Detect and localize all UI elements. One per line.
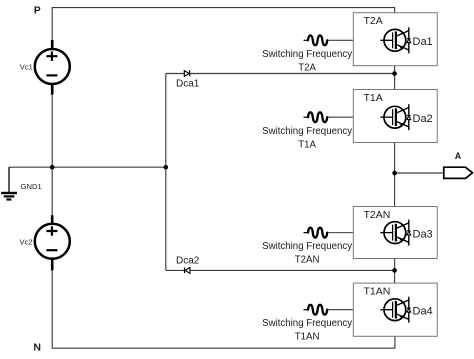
wire bottom rail N <box>52 270 395 348</box>
wire clamp vertical <box>165 74 167 271</box>
wire gate T1AN <box>327 309 353 311</box>
wire gate T1A <box>327 116 353 118</box>
svg-text:Da2: Da2 <box>413 113 433 125</box>
svg-text:Switching Frequency: Switching Frequency <box>262 49 352 60</box>
block outline T1A <box>353 90 437 143</box>
transistor T1A igbt <box>380 104 409 130</box>
diode Da2 <box>407 116 411 120</box>
voltage source Vc1 <box>35 40 70 95</box>
wire Dca1 branch <box>166 73 395 75</box>
svg-text:Switching Frequency: Switching Frequency <box>262 126 352 137</box>
transistor T2A igbt <box>380 27 409 53</box>
svg-text:Switching Frequency: Switching Frequency <box>262 318 352 329</box>
diode Da1 <box>407 39 411 43</box>
junction output A dot <box>392 171 397 176</box>
svg-text:T2AN: T2AN <box>295 255 320 266</box>
gate signal squiggle T1AN <box>304 305 328 315</box>
wire T1A to T2AN <box>394 143 396 207</box>
wire T2AN to T1AN <box>394 259 396 284</box>
transistor T1AN igbt <box>380 297 409 323</box>
svg-text:GND1: GND1 <box>21 182 42 191</box>
port arrow A <box>444 167 473 178</box>
gate signal squiggle T2A <box>304 35 328 45</box>
svg-text:A: A <box>455 151 462 161</box>
wire left rail middle <box>51 95 53 216</box>
wire ground branch <box>9 166 52 168</box>
wire gate T2A <box>327 39 353 41</box>
wire top rail P <box>52 8 394 40</box>
wire output A <box>395 172 444 174</box>
svg-text:Da3: Da3 <box>413 228 433 240</box>
svg-text:Dca2: Dca2 <box>176 256 200 267</box>
diode Dca1 <box>184 70 189 76</box>
wire T2A to T1A <box>394 66 396 90</box>
block outline T2A <box>353 13 437 66</box>
diode Da4 <box>407 308 411 312</box>
svg-text:Vc1: Vc1 <box>20 63 33 72</box>
junction neutral dot <box>50 165 55 170</box>
svg-text:T1AN: T1AN <box>364 286 391 298</box>
svg-text:Da4: Da4 <box>413 305 433 317</box>
wire Dca2 branch <box>166 269 395 271</box>
svg-text:P: P <box>34 6 41 17</box>
transistor T2AN igbt <box>380 220 409 246</box>
svg-text:T1A: T1A <box>298 140 316 151</box>
junction Dca2 dot <box>392 268 397 273</box>
wire neutral to clamp <box>52 166 166 168</box>
diode Dca2 <box>185 267 191 273</box>
svg-text:T1AN: T1AN <box>295 332 320 343</box>
block outline T1AN <box>353 283 437 336</box>
junction clamp dot <box>164 165 169 170</box>
svg-text:T1A: T1A <box>364 92 383 104</box>
gate signal squiggle T1A <box>304 112 328 122</box>
wire gate T2AN <box>327 232 353 234</box>
svg-text:T2AN: T2AN <box>364 209 391 221</box>
svg-text:T2A: T2A <box>298 63 316 74</box>
svg-text:Vc2: Vc2 <box>20 238 33 247</box>
block outline T2AN <box>353 207 437 259</box>
voltage source Vc2 <box>35 215 70 270</box>
svg-text:Switching Frequency: Switching Frequency <box>262 241 352 252</box>
gate signal squiggle T2AN <box>304 228 328 238</box>
diode Da3 <box>407 231 411 235</box>
svg-text:Dca1: Dca1 <box>176 79 200 90</box>
svg-text:N: N <box>33 342 41 354</box>
svg-text:Da1: Da1 <box>413 36 433 48</box>
svg-text:T2A: T2A <box>364 15 383 27</box>
junction Dca1 dot <box>392 71 397 76</box>
ground GND1 <box>1 167 17 199</box>
